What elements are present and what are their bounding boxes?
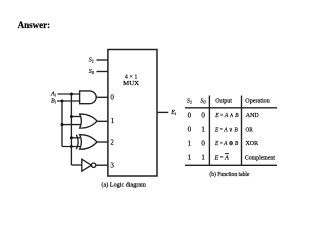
svg-text:Answer:: Answer: [18,20,51,30]
table bottom rule [185,164,277,166]
junction dot B top [61,100,64,103]
and-gate G1 [80,91,97,104]
bus B vertical [61,101,63,147]
svg-text:(b) Function table: (b) Function table [209,171,249,178]
svg-text:Output: Output [215,97,232,104]
junction dot XOR top [70,136,73,139]
svg-text:2: 2 [110,139,114,147]
svg-text:1: 1 [201,154,205,162]
wire S0 [97,71,108,73]
svg-text:XOR: XOR [246,140,259,147]
wire S1 [97,59,108,61]
svg-text:Bi: Bi [51,99,57,105]
mux label 4x1 MUX [123,74,139,87]
svg-text:1: 1 [188,140,192,148]
table vertical rule 2 [241,96,243,166]
junction dot OR bottom [61,123,64,126]
junction dot A top [70,93,73,96]
row 3 selects [188,140,206,148]
svg-text:(a) Logic diagram: (a) Logic diagram [101,182,146,189]
not-gate G4 [82,159,96,171]
xor-gate G3 [76,135,97,150]
row 1 selects [188,112,206,120]
or-gate G2 [80,114,97,128]
wire OR top input [71,116,81,118]
svg-text:S1: S1 [187,99,192,105]
junction blob at bus crossing [70,145,73,148]
wire Ei output [157,111,168,113]
row 2 selects [188,126,206,134]
svg-text:S1: S1 [89,57,94,63]
svg-text:S0: S0 [200,99,206,105]
svg-text:1: 1 [188,154,192,162]
wire OR bottom input [62,124,81,126]
svg-text:E = A: E = A [213,154,229,161]
table header rule [185,107,277,109]
svg-text:Ei: Ei [170,110,177,116]
svg-text:0: 0 [201,140,205,148]
svg-text:E = A ⊕ B: E = A ⊕ B [214,140,238,147]
svg-text:Operation: Operation [245,97,269,104]
svg-text:0: 0 [110,93,114,101]
wire NOT input [71,164,81,166]
svg-text:Complement: Complement [245,154,275,161]
table vertical rule 1 [208,96,210,166]
svg-text:0: 0 [188,126,192,134]
svg-text:MUX: MUX [123,80,139,87]
svg-text:3: 3 [110,162,114,170]
svg-text:0: 0 [201,112,205,120]
wire AND output to pin 0 [96,96,108,98]
svg-text:1: 1 [201,126,205,134]
svg-text:E = A ∧ B: E = A ∧ B [214,112,239,119]
bus A vertical [70,94,72,165]
wire Ai to AND input [58,93,81,95]
wire Bi to AND input [57,100,80,102]
wire XOR bottom input [62,146,80,148]
row 4 formula E = A-bar [213,154,229,162]
svg-text:0: 0 [188,112,192,120]
wire XOR output to pin 2 [97,141,108,143]
wire XOR top input [71,137,80,139]
svg-text:OR: OR [246,127,254,134]
wire OR output to pin 1 [97,120,108,122]
mux U1 box [108,50,157,177]
wire NOT output to pin 3 [96,164,108,166]
svg-text:S0: S0 [89,69,95,75]
svg-text:Ai: Ai [50,91,57,97]
svg-text:1: 1 [111,117,115,125]
junction dot OR top [70,115,73,118]
svg-text:AND: AND [246,112,259,119]
row 4 selects [188,154,206,162]
svg-text:E = A ∨ B: E = A ∨ B [214,126,238,133]
